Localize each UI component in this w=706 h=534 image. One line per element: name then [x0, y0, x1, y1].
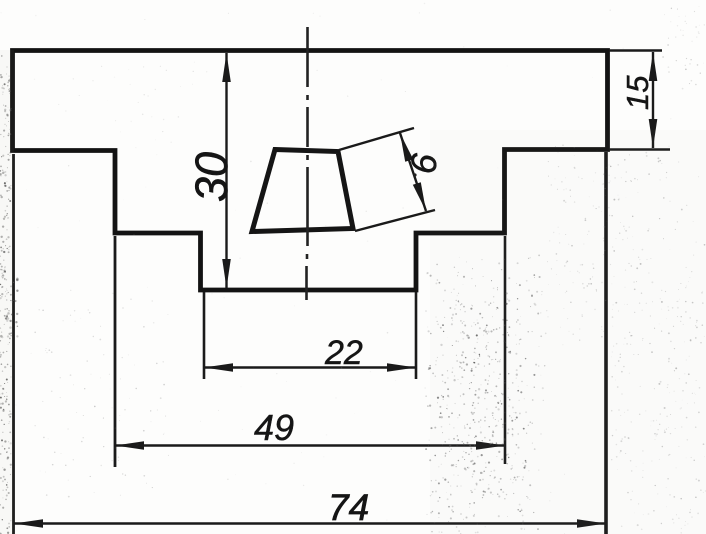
dimension line 15 — [652, 52, 654, 148]
dimension line 49 — [115, 444, 505, 446]
dimension line 22 — [204, 366, 416, 368]
extension line x=505 (for 49) — [504, 236, 507, 464]
centerline (dash-dot) — [307, 27, 308, 300]
svg-text:49: 49 — [254, 407, 294, 448]
stray dot — [413, 173, 416, 176]
extension line left (x=14, for 74) — [12, 154, 15, 534]
dimension line 6 — [400, 133, 426, 211]
part outline (stepped die cross-section) — [13, 51, 608, 291]
extension line x=416 (for 22) — [415, 292, 418, 379]
svg-text:30: 30 — [186, 152, 237, 202]
extension line y=149 right (for 15) — [609, 148, 670, 151]
trapezoid slug — [252, 150, 353, 232]
svg-text:74: 74 — [328, 487, 369, 528]
extension line x=606 (for 74) — [604, 152, 608, 534]
extension line top right (y=50, for 15) — [609, 49, 662, 52]
extension lines for 6 (oblique) — [339, 128, 414, 150]
svg-text:22: 22 — [324, 334, 363, 372]
dimension line 30 — [225, 53, 227, 288]
extension line x=115 (for 49) — [114, 236, 117, 467]
extension line x=204 (for 22) — [203, 292, 206, 379]
svg-text:15: 15 — [620, 75, 655, 110]
dimension line 74 — [14, 522, 606, 525]
